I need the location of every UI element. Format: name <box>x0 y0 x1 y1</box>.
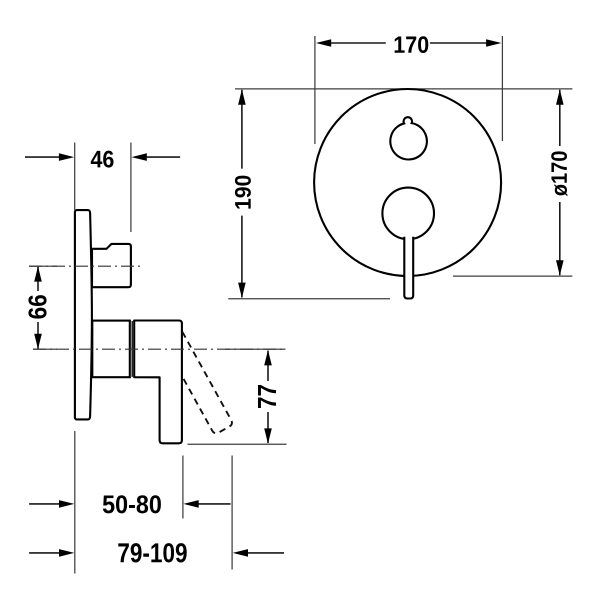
arrowhead 50-80 right <box>183 500 198 508</box>
lever rod front view <box>404 237 413 299</box>
dim 50-80 arrows outside <box>29 503 60 505</box>
dim o170 line with arrows <box>559 90 561 275</box>
extension line bottom for dim 77 <box>188 443 287 445</box>
faceplate circle front view <box>314 89 501 276</box>
label 50-80 <box>103 495 161 513</box>
extension line left for dim 46 <box>74 143 76 211</box>
dim 46 arrows outside <box>25 156 60 158</box>
dashed lever side view <box>182 332 232 433</box>
dim 79-109 arrows outside <box>29 552 60 554</box>
centerline solid left end <box>29 265 57 267</box>
side view sleeve escutcheon <box>92 321 130 378</box>
arrowhead 66 top <box>34 266 42 281</box>
diverter knob with nub front view <box>390 117 427 159</box>
side view mixer body and grip <box>134 321 182 444</box>
extension line top tangent (190 / o170 top) <box>235 88 572 90</box>
arrowhead 46 right <box>132 153 147 161</box>
extension line right for dim 46 <box>130 143 132 233</box>
mixer knob front view <box>382 188 434 240</box>
arrowhead 190 top <box>238 89 246 104</box>
label 190 <box>235 176 251 209</box>
arrowhead 170 left <box>316 39 331 47</box>
label 79-109 <box>118 543 186 562</box>
dim 170 line with arrows <box>330 42 488 44</box>
arrowhead 190 bottom <box>238 283 246 298</box>
extension line bottom of lever front view <box>228 298 390 300</box>
label 46 <box>91 151 114 168</box>
arrowhead o170 top <box>556 89 564 104</box>
extension line left for dim 170 <box>314 36 316 144</box>
label 170 <box>395 36 429 53</box>
arrowhead o170 bottom <box>556 260 564 275</box>
dim 190 line with arrows <box>241 90 243 298</box>
label 77 <box>258 385 276 408</box>
arrowhead 66 bottom <box>34 334 42 349</box>
label 66 <box>28 295 46 319</box>
centerline upper knob axis <box>29 265 141 267</box>
extension line right for dim 170 <box>501 36 503 141</box>
arrowhead 77 bottom <box>264 428 272 443</box>
label o170 <box>551 151 567 196</box>
arrowhead 50-80 left <box>59 500 74 508</box>
extension line below plate left <box>74 431 76 574</box>
extension line below lever tip <box>231 456 233 570</box>
extension line bottom tangent of plate circle <box>453 275 572 277</box>
side view wall plate profile <box>75 210 92 419</box>
arrowhead 170 right <box>486 39 501 47</box>
arrowhead 79-109 left <box>59 549 74 557</box>
centerline lower body axis <box>33 348 286 350</box>
arrowhead 79-109 right <box>233 549 248 557</box>
arrowhead 77 top <box>264 350 272 365</box>
dim 77 line with arrows <box>267 351 269 443</box>
arrowhead 46 left <box>59 153 74 161</box>
centerline solid ends <box>33 348 57 350</box>
dim 66 line with arrows <box>37 267 39 349</box>
extension line below grip right <box>182 456 184 519</box>
cartridge line <box>131 321 133 377</box>
side view diverter knob <box>92 244 131 287</box>
